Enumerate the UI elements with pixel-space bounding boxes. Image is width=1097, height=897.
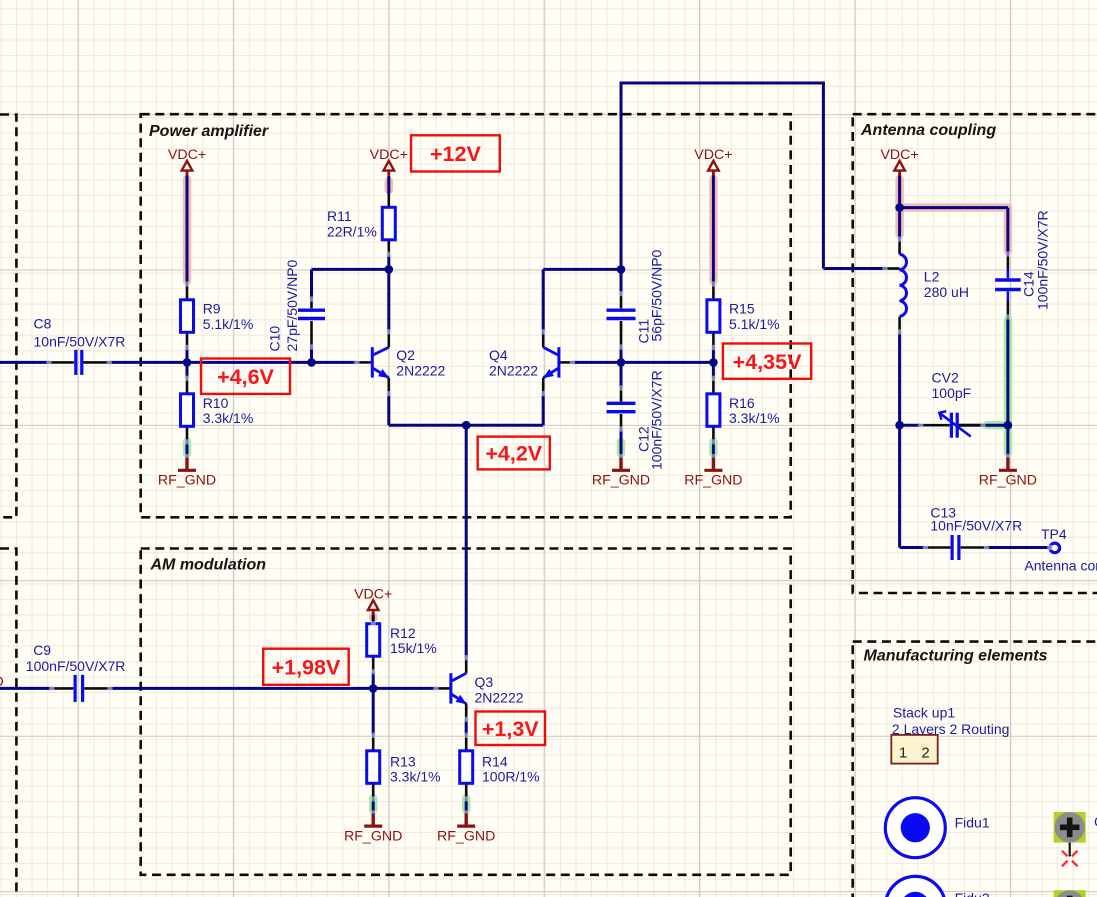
svg-text:1: 1 xyxy=(899,745,907,762)
svg-text:R9: R9 xyxy=(203,300,221,316)
svg-text:+12V: +12V xyxy=(430,142,481,166)
svg-text:+1,98V: +1,98V xyxy=(272,655,341,679)
svg-text:Q3: Q3 xyxy=(475,674,494,690)
svg-text:+4,6V: +4,6V xyxy=(217,365,274,389)
svg-text:2: 2 xyxy=(921,745,929,762)
svg-text:RF_GND: RF_GND xyxy=(979,473,1037,489)
svg-text:C10: C10 xyxy=(267,326,283,352)
svg-text:VDC+: VDC+ xyxy=(370,147,408,163)
svg-text:2N2222: 2N2222 xyxy=(396,363,445,379)
svg-text:Manufacturing elements: Manufacturing elements xyxy=(864,648,1048,665)
svg-text:Q2: Q2 xyxy=(396,347,415,363)
svg-text:RF_GND: RF_GND xyxy=(684,473,742,489)
svg-text:VDC+: VDC+ xyxy=(694,147,732,163)
svg-text:R10: R10 xyxy=(203,395,229,411)
svg-text:Fidu2: Fidu2 xyxy=(955,890,990,897)
svg-text:L2: L2 xyxy=(924,269,940,285)
svg-text:RF_GND: RF_GND xyxy=(437,828,495,844)
svg-text:RF_GND: RF_GND xyxy=(592,473,650,489)
svg-text:Fidu1: Fidu1 xyxy=(955,815,990,831)
svg-text:RF_GND: RF_GND xyxy=(158,473,216,489)
svg-text:C8: C8 xyxy=(34,316,52,332)
svg-text:5.1k/1%: 5.1k/1% xyxy=(203,316,254,332)
svg-text:5.1k/1%: 5.1k/1% xyxy=(729,316,780,332)
svg-text:3.3k/1%: 3.3k/1% xyxy=(390,769,441,785)
svg-text:R11: R11 xyxy=(327,208,352,224)
svg-text:56pF/50V/NP0: 56pF/50V/NP0 xyxy=(649,249,665,341)
svg-text:R15: R15 xyxy=(729,300,755,316)
svg-text:AM modulation: AM modulation xyxy=(150,557,267,574)
svg-text:Antenna coupling: Antenna coupling xyxy=(860,122,996,139)
svg-text:100nF/50V/X7R: 100nF/50V/X7R xyxy=(1035,210,1051,310)
svg-text:Q4: Q4 xyxy=(489,347,508,363)
svg-text:22R/1%: 22R/1% xyxy=(327,223,377,239)
svg-text:Power amplifier: Power amplifier xyxy=(149,123,269,140)
svg-text:100pF: 100pF xyxy=(932,385,972,401)
svg-text:VDC+: VDC+ xyxy=(880,147,918,163)
svg-text:RF_GND: RF_GND xyxy=(344,828,402,844)
svg-text:R13: R13 xyxy=(390,753,416,769)
svg-text:+1,3V: +1,3V xyxy=(482,717,539,741)
svg-text:2N2222: 2N2222 xyxy=(489,363,538,379)
svg-text:100nF/50V/X7R: 100nF/50V/X7R xyxy=(26,658,126,674)
svg-text:100nF/50V/X7R: 100nF/50V/X7R xyxy=(649,370,665,470)
svg-text:3.3k/1%: 3.3k/1% xyxy=(203,410,254,426)
svg-text:+4,35V: +4,35V xyxy=(733,350,802,374)
svg-text:27pF/50V/NP0: 27pF/50V/NP0 xyxy=(284,259,300,351)
svg-text:280 uH: 280 uH xyxy=(924,284,969,300)
svg-text:TP4: TP4 xyxy=(1041,526,1067,542)
svg-text:D: D xyxy=(0,674,4,690)
svg-text:R14: R14 xyxy=(482,753,508,769)
svg-text:VDC+: VDC+ xyxy=(168,147,206,163)
svg-text:Stack up1: Stack up1 xyxy=(893,705,955,721)
svg-text:R16: R16 xyxy=(729,395,755,411)
svg-text:15k/1%: 15k/1% xyxy=(390,640,437,656)
svg-text:+4,2V: +4,2V xyxy=(485,442,542,466)
svg-text:10nF/50V/X7R: 10nF/50V/X7R xyxy=(930,518,1022,534)
svg-text:Antenna connector: Antenna connector xyxy=(1024,557,1097,573)
svg-text:R12: R12 xyxy=(390,625,416,641)
svg-text:VDC+: VDC+ xyxy=(354,587,392,603)
svg-text:C9: C9 xyxy=(33,642,51,658)
svg-text:100R/1%: 100R/1% xyxy=(482,769,540,785)
svg-text:2N2222: 2N2222 xyxy=(475,689,524,705)
svg-text:10nF/50V/X7R: 10nF/50V/X7R xyxy=(34,333,126,349)
svg-text:CV2: CV2 xyxy=(932,369,959,385)
svg-text:3.3k/1%: 3.3k/1% xyxy=(729,410,780,426)
